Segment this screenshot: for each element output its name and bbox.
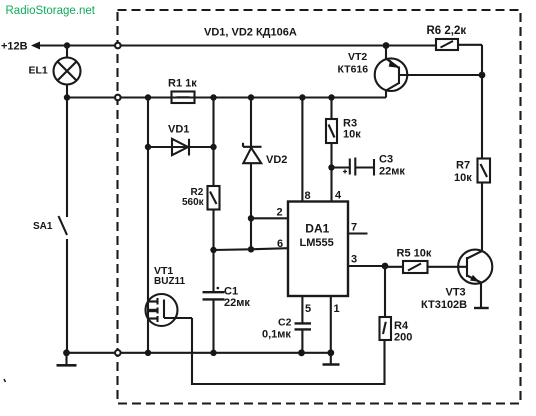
svg-text:VD1: VD1 bbox=[168, 124, 189, 136]
capacitor C3 bbox=[332, 158, 375, 176]
node: border feedthrough bottom bbox=[115, 350, 121, 356]
svg-text:R6 2,2к: R6 2,2к bbox=[427, 25, 467, 37]
transistor VT1 (MOSFET) bbox=[146, 294, 193, 326]
node: VD2 top branch bbox=[248, 94, 254, 100]
node: pin3 junction bbox=[382, 263, 389, 270]
switch SA1 bbox=[59, 98, 68, 353]
ground bar pin1 bbox=[323, 363, 340, 365]
wire: R2 branch vertical bbox=[212, 98, 214, 187]
lamp EL1 bbox=[54, 46, 81, 98]
node: VD1 cathode junction bbox=[210, 144, 216, 150]
wire: pin2 stub bbox=[251, 217, 288, 219]
wire: pin 1 to ground bbox=[330, 296, 332, 364]
+12V arrow bbox=[31, 42, 40, 50]
svg-text:VD2: VD2 bbox=[266, 154, 287, 166]
wire: pin 3 to R5/R4 junction bbox=[348, 265, 385, 267]
wire: top +12V rail bbox=[39, 44, 436, 46]
svg-text:C3: C3 bbox=[379, 154, 393, 166]
svg-text:22мк: 22мк bbox=[379, 166, 405, 178]
ground bar VT3 emitter bbox=[474, 307, 489, 309]
resistor R5 bbox=[385, 261, 467, 273]
node: pin2 junction bbox=[248, 215, 254, 221]
svg-text:200: 200 bbox=[394, 332, 412, 344]
wire: second rail bbox=[67, 96, 386, 98]
stray mark bottom-left bbox=[4, 379, 6, 382]
svg-text:6: 6 bbox=[277, 238, 283, 250]
svg-text:КТ3102В: КТ3102В bbox=[421, 299, 467, 311]
node: C3 junction bbox=[328, 164, 334, 170]
svg-text:7: 7 bbox=[351, 222, 357, 234]
node: pin1 bottom rail junction bbox=[327, 349, 334, 356]
svg-text:0,1мк: 0,1мк bbox=[262, 329, 291, 341]
svg-text:C1: C1 bbox=[224, 286, 238, 298]
svg-text:DA1: DA1 bbox=[305, 222, 329, 236]
wire: VT3 collector to R7 bbox=[481, 183, 483, 252]
svg-text:8: 8 bbox=[305, 190, 311, 202]
wire: left vertical (VD1/VT1 drain rail) bbox=[147, 98, 149, 353]
svg-text:1: 1 bbox=[334, 303, 340, 315]
svg-text:2: 2 bbox=[277, 207, 283, 219]
svg-text:560к: 560к bbox=[182, 197, 205, 208]
wire: pin 7 stub bbox=[348, 232, 368, 234]
svg-text:RadioStorage.net: RadioStorage.net bbox=[6, 5, 96, 17]
IC DA1 LM555 bbox=[288, 202, 348, 297]
svg-text:+12В: +12В bbox=[1, 41, 28, 53]
node: VT2 collector junction on top rail bbox=[383, 42, 390, 49]
diode VD1 bbox=[148, 139, 214, 156]
svg-text:3: 3 bbox=[351, 254, 357, 266]
node: R2 bottom junction bbox=[210, 247, 216, 253]
node: pin6 rail junction bbox=[248, 246, 254, 252]
svg-text:C2: C2 bbox=[278, 317, 292, 329]
resistor R2 bbox=[208, 186, 220, 210]
node: VT2 base / R6 / R7 junction bbox=[479, 72, 486, 79]
node: R1 right junction bbox=[210, 94, 216, 100]
wire: R2 to pin6 rail bbox=[212, 210, 214, 251]
wire: VT1 gate run to R4 bbox=[192, 318, 385, 384]
node: VT1 bottom junction bbox=[145, 350, 151, 356]
wire: VD2 down to pin6 rail bbox=[250, 218, 252, 249]
svg-text:R5 10к: R5 10к bbox=[397, 248, 432, 260]
node: EL1 top junction bbox=[64, 42, 70, 48]
resistor R3 bbox=[326, 98, 337, 202]
resistor R7 bbox=[478, 75, 491, 183]
svg-text:EL1: EL1 bbox=[29, 65, 48, 77]
node: second rail left junction bbox=[64, 94, 70, 100]
resistor R6 bbox=[436, 39, 482, 75]
node: VD1 anode junction bbox=[145, 144, 151, 150]
svg-text:VD1, VD2 КД106А: VD1, VD2 КД106А bbox=[204, 26, 297, 38]
node: pin8 branch bbox=[299, 94, 305, 100]
svg-text:КТ616: КТ616 bbox=[338, 64, 369, 76]
svg-text:VT2: VT2 bbox=[348, 51, 367, 63]
svg-text:R1 1к: R1 1к bbox=[168, 78, 197, 90]
node: border feedthrough top bbox=[115, 43, 121, 49]
node: VD1 top branch bbox=[145, 94, 151, 100]
svg-text:10к: 10к bbox=[343, 129, 361, 141]
transistor VT2 bbox=[375, 46, 482, 98]
resistor R4 bbox=[380, 266, 392, 340]
node: bottom-left junction bbox=[63, 349, 70, 356]
node: C2 bottom junction bbox=[298, 349, 305, 356]
svg-text:10к: 10к bbox=[454, 172, 472, 184]
dashed enclosure bbox=[118, 10, 521, 404]
ground symbol left bbox=[57, 353, 77, 366]
svg-text:4: 4 bbox=[335, 190, 342, 202]
svg-text:R4: R4 bbox=[394, 320, 409, 332]
resistor R1 bbox=[172, 92, 195, 104]
wire: pin6 rail bbox=[214, 248, 289, 250]
svg-text:VT3: VT3 bbox=[446, 287, 466, 299]
svg-text:R7: R7 bbox=[456, 160, 470, 172]
svg-text:LM555: LM555 bbox=[300, 237, 334, 249]
node: C1 bottom junction bbox=[210, 350, 216, 356]
node: border feedthrough mid bbox=[115, 95, 121, 101]
capacitor C2 (pin 5) bbox=[295, 296, 312, 353]
svg-text:22мк: 22мк bbox=[224, 297, 250, 309]
wire: bottom rail bbox=[67, 352, 332, 354]
svg-text:5: 5 bbox=[305, 303, 311, 315]
capacitor C1 bbox=[203, 250, 225, 353]
diode VD2 (zener) bbox=[243, 98, 262, 219]
transistor VT3 bbox=[458, 250, 492, 307]
wire: pin8 vertical bbox=[301, 98, 303, 202]
node: R3 top branch bbox=[328, 94, 334, 100]
svg-text:SA1: SA1 bbox=[33, 221, 53, 232]
svg-text:BUZ11: BUZ11 bbox=[154, 276, 186, 287]
